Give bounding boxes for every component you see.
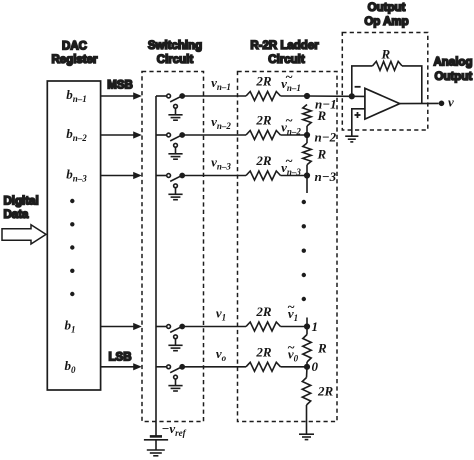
- svg-text:vn–1: vn–1: [211, 75, 231, 92]
- svg-text:Register: Register: [51, 54, 98, 66]
- svg-text:n−3: n−3: [315, 169, 337, 184]
- svg-text:R-2R Ladder: R-2R Ladder: [250, 40, 319, 52]
- junction node 1: [305, 324, 310, 329]
- ladder backbone wire above node 1: [306, 318, 308, 327]
- ground contact under switch Sn–1: [168, 104, 182, 120]
- ladder backbone wire below n-3: [306, 165, 308, 193]
- wire bn–1 output arrow: [101, 95, 137, 97]
- resistor R between node 1 and node 0: [303, 335, 311, 363]
- resistor 2R row 1: [246, 322, 281, 331]
- svg-text:Digital: Digital: [4, 196, 39, 208]
- ground contact under switch Sn–2: [168, 143, 182, 159]
- negative vref bus wire: [155, 96, 157, 436]
- svg-text:2R: 2R: [255, 153, 272, 168]
- svg-text:Op Amp: Op Amp: [364, 16, 408, 28]
- battery -vref: [144, 436, 168, 449]
- ground contact under switch S1: [168, 335, 182, 351]
- svg-text:Circuit: Circuit: [268, 54, 305, 66]
- resistor R between n-2 and n-3: [303, 143, 311, 165]
- svg-text:Circuit: Circuit: [157, 54, 194, 66]
- wire node 0 to 2R: [306, 367, 309, 378]
- svg-text:~: ~: [285, 113, 293, 128]
- R-2R ladder dashed box: [238, 72, 338, 422]
- svg-text:R: R: [317, 108, 327, 123]
- plus input wire: [352, 109, 365, 136]
- wire resistor to node 1: [281, 326, 308, 328]
- wire bn–2 output arrow: [101, 134, 137, 136]
- junction node 0: [305, 365, 310, 370]
- svg-text:~: ~: [287, 339, 295, 354]
- svg-text:n−2: n−2: [315, 130, 337, 145]
- svg-text:vn–2: vn–2: [211, 114, 231, 131]
- ladder ground: [299, 434, 314, 439]
- svg-text:v1: v1: [216, 306, 226, 323]
- svg-text:2R: 2R: [255, 74, 272, 89]
- svg-text:2R: 2R: [255, 113, 272, 128]
- switch Sn–3: [156, 173, 184, 181]
- op amp dashed box: [342, 33, 428, 131]
- wire switch S0 to ladder: [182, 366, 246, 368]
- wire b1 output arrow: [101, 326, 137, 328]
- junction node n–3: [305, 173, 310, 178]
- wire switch Sn–3 to ladder: [182, 175, 246, 177]
- svg-text:~: ~: [285, 153, 293, 168]
- svg-text:DAC: DAC: [62, 41, 87, 53]
- switch S1: [156, 324, 184, 332]
- svg-text:~: ~: [285, 69, 293, 84]
- switch Sn–1: [156, 94, 184, 102]
- wire b0 output arrow: [101, 366, 137, 368]
- op amp ground: [345, 136, 358, 142]
- svg-text:~: ~: [287, 299, 295, 314]
- feedback wire up: [352, 66, 373, 96]
- switch Sn–2: [156, 133, 184, 141]
- resistor 2R row n–3: [246, 171, 281, 180]
- junction node n–2: [305, 133, 310, 138]
- output terminal: [440, 101, 444, 105]
- svg-text:Switching: Switching: [148, 40, 202, 52]
- ladder ellipsis dots: [302, 200, 306, 301]
- switch S0: [156, 365, 184, 373]
- wire R to node 0: [306, 362, 308, 367]
- plus sign: [355, 112, 361, 118]
- svg-text:R: R: [317, 341, 327, 356]
- svg-text:Output: Output: [368, 2, 406, 14]
- svg-text:vo: vo: [216, 346, 227, 363]
- ground contact under switch S0: [168, 375, 182, 391]
- ground contact under switch Sn–3: [168, 184, 182, 200]
- wire resistor to node 0: [281, 366, 308, 368]
- output wire: [400, 102, 439, 104]
- junction at inverting input: [350, 94, 355, 99]
- wire switch S1 to ladder: [182, 326, 246, 328]
- svg-text:2R: 2R: [255, 344, 272, 359]
- wire n-2 segment: [306, 126, 308, 143]
- wire resistor to node n–1: [281, 95, 308, 97]
- wire resistor to node n–2: [281, 134, 308, 136]
- svg-text:R: R: [381, 47, 391, 62]
- svg-text:vn–3: vn–3: [211, 155, 231, 172]
- svg-text:0: 0: [312, 359, 319, 374]
- feedback wire down to output: [402, 66, 422, 104]
- resistor 2R row n–1: [246, 92, 281, 101]
- svg-text:R: R: [317, 147, 327, 162]
- wire node1 to R: [306, 327, 308, 335]
- resistor R between n-1 and n-2: [303, 105, 311, 127]
- wire ladder node n-1 to op amp inverting input: [307, 95, 365, 97]
- register ellipsis dots: [70, 199, 74, 296]
- wire 2R to ladder ground: [306, 405, 308, 434]
- feedback resistor R: [373, 61, 403, 70]
- svg-text:−vref: −vref: [162, 421, 187, 438]
- ground below battery: [147, 450, 165, 456]
- svg-text:v: v: [448, 95, 454, 110]
- svg-text:Analog: Analog: [434, 57, 473, 69]
- wire resistor to node n–3: [281, 175, 308, 177]
- svg-text:MSB: MSB: [107, 80, 133, 92]
- switching circuit dashed box: [142, 72, 204, 422]
- DAC register box: [47, 81, 100, 390]
- svg-text:1: 1: [312, 319, 319, 334]
- digital data input block arrow: [2, 225, 46, 244]
- svg-text:LSB: LSB: [109, 352, 132, 364]
- wire switch Sn–2 to ladder: [182, 134, 246, 136]
- resistor 2R row n–2: [246, 131, 281, 140]
- junction node n–1: [305, 94, 310, 99]
- terminating resistor 2R: [302, 378, 310, 406]
- svg-text:2R: 2R: [317, 384, 334, 399]
- svg-text:Output: Output: [435, 71, 473, 83]
- op amp triangle: [365, 88, 400, 119]
- wire bn–3 output arrow: [101, 175, 137, 177]
- resistor 2R row 0: [246, 362, 281, 371]
- wire switch Sn–1 to ladder: [182, 95, 246, 97]
- svg-text:Data: Data: [4, 209, 30, 221]
- minus sign: [355, 86, 361, 88]
- svg-text:2R: 2R: [255, 304, 272, 319]
